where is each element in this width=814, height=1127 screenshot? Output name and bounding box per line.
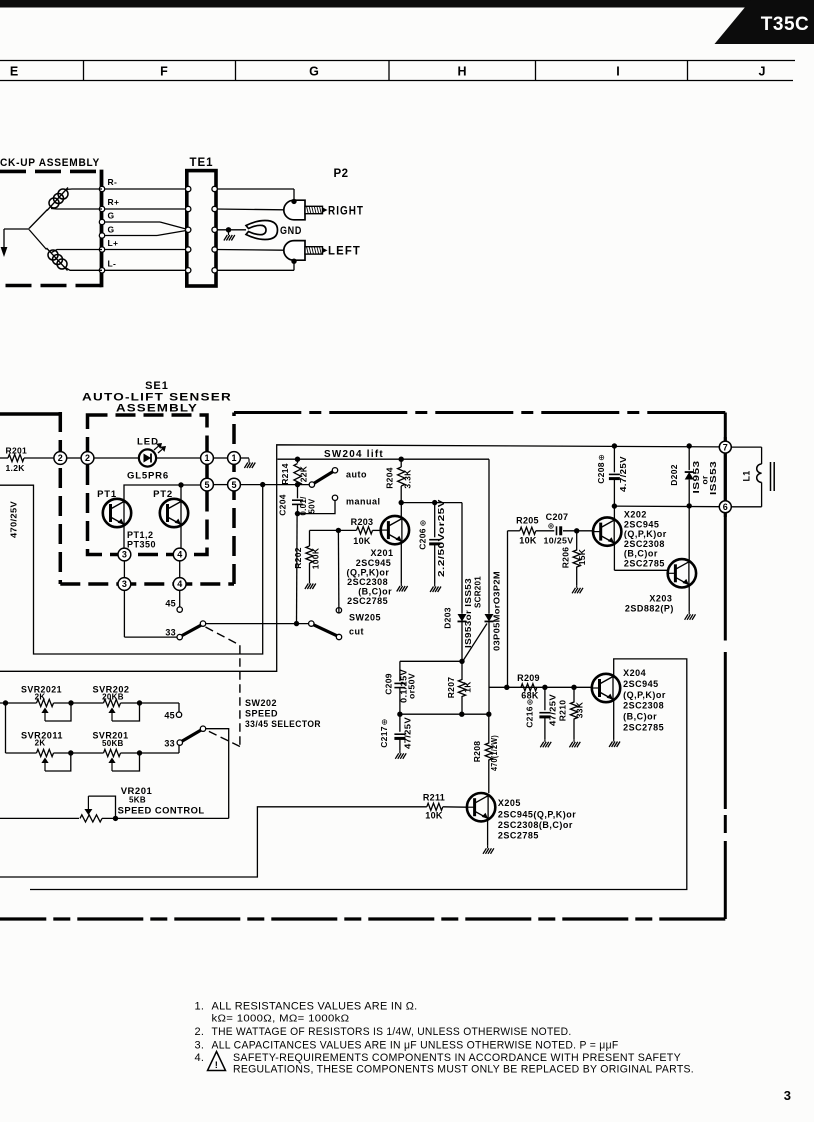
svg-text:J: J	[759, 65, 766, 79]
svg-text:R214: R214	[280, 463, 290, 485]
svg-text:15K: 15K	[577, 548, 587, 565]
svg-text:2SC2785: 2SC2785	[624, 559, 665, 569]
svg-text:ISS53: ISS53	[708, 461, 718, 495]
svg-text:2: 2	[85, 453, 90, 463]
svg-text:4.7/25V: 4.7/25V	[619, 456, 628, 492]
svg-text:1.2K: 1.2K	[6, 463, 26, 473]
svg-text:1.: 1.	[195, 1001, 205, 1013]
svg-text:5KB: 5KB	[129, 796, 146, 805]
svg-text:SW204 lift: SW204 lift	[324, 449, 384, 460]
svg-text:2K: 2K	[35, 739, 46, 748]
svg-text:X203: X203	[649, 594, 672, 604]
svg-text:ALL CAPACITANCES VALUES ARE IN: ALL CAPACITANCES VALUES ARE IN μF UNLESS…	[212, 1040, 619, 1052]
svg-text:TE1: TE1	[189, 157, 213, 169]
svg-text:2SC945: 2SC945	[623, 679, 659, 689]
svg-text:C216: C216	[525, 706, 535, 728]
svg-text:auto: auto	[346, 470, 367, 480]
svg-text:cut: cut	[349, 627, 364, 637]
svg-text:4: 4	[177, 579, 182, 589]
svg-text:G: G	[108, 211, 115, 221]
svg-text:PT2: PT2	[153, 489, 173, 500]
svg-text:5: 5	[231, 480, 236, 490]
svg-text:R-: R-	[108, 177, 118, 187]
svg-text:4.: 4.	[195, 1052, 205, 1064]
svg-text:F: F	[160, 65, 168, 79]
svg-text:kΩ= 1000Ω, MΩ= 1000kΩ: kΩ= 1000Ω, MΩ= 1000kΩ	[212, 1014, 350, 1025]
svg-text:(B,C)or: (B,C)or	[624, 549, 658, 559]
svg-text:CK-UP ASSEMBLY: CK-UP ASSEMBLY	[0, 157, 100, 169]
svg-text:2SC945(Q,P,K)or: 2SC945(Q,P,K)or	[498, 810, 576, 820]
svg-text:R208: R208	[472, 741, 482, 763]
svg-text:47/25V: 47/25V	[549, 694, 558, 726]
svg-text:⊕: ⊕	[548, 522, 555, 531]
svg-text:(B,C)or: (B,C)or	[358, 587, 392, 597]
svg-text:RIGHT: RIGHT	[328, 205, 364, 217]
svg-text:I: I	[616, 65, 619, 79]
svg-text:L1: L1	[742, 470, 752, 481]
svg-text:R203: R203	[351, 517, 374, 527]
svg-text:50V: 50V	[308, 498, 317, 513]
svg-text:REGULATIONS, THESE COMPONENTS: REGULATIONS, THESE COMPONENTS MUST ONLY …	[233, 1064, 694, 1076]
svg-text:45: 45	[165, 599, 176, 609]
svg-text:1: 1	[231, 453, 236, 463]
svg-text:D202: D202	[669, 464, 679, 486]
svg-text:3: 3	[122, 550, 127, 560]
svg-text:3: 3	[784, 1088, 791, 1103]
svg-text:GL5PR6: GL5PR6	[127, 471, 169, 482]
svg-text:PT1,2: PT1,2	[127, 530, 154, 540]
svg-text:C207: C207	[546, 512, 569, 522]
svg-text:G: G	[108, 225, 115, 235]
svg-text:33: 33	[165, 628, 176, 638]
svg-text:C208: C208	[596, 462, 606, 484]
svg-text:X204: X204	[623, 668, 646, 678]
svg-text:10K: 10K	[425, 811, 443, 821]
svg-text:⊕: ⊕	[380, 719, 389, 726]
svg-text:22K: 22K	[299, 465, 309, 482]
svg-text:SW202: SW202	[245, 698, 277, 708]
svg-text:SCR201: SCR201	[473, 576, 483, 608]
svg-text:SE1: SE1	[145, 380, 169, 392]
svg-text:3: 3	[122, 579, 127, 589]
svg-text:X201: X201	[371, 548, 394, 558]
svg-text:2SC2308(B,C)or: 2SC2308(B,C)or	[498, 820, 573, 830]
svg-text:03P05MorO3P2M: 03P05MorO3P2M	[493, 571, 502, 651]
svg-text:3.3K: 3.3K	[403, 469, 413, 489]
svg-text:⊕: ⊕	[597, 454, 606, 461]
svg-text:C206: C206	[418, 528, 428, 550]
svg-text:2.2/50Vor25V: 2.2/50Vor25V	[437, 498, 446, 577]
svg-text:7: 7	[723, 442, 728, 452]
svg-text:1K: 1K	[463, 681, 473, 693]
svg-text:33: 33	[164, 739, 175, 749]
svg-text:100K: 100K	[311, 547, 321, 569]
svg-text:6: 6	[723, 502, 728, 512]
svg-text:E: E	[10, 65, 18, 79]
svg-text:1: 1	[204, 453, 209, 463]
svg-text:H: H	[457, 65, 466, 79]
svg-text:SPEED: SPEED	[245, 709, 278, 719]
svg-text:PT1: PT1	[97, 489, 117, 500]
svg-text:(B,C)or: (B,C)or	[623, 712, 657, 722]
svg-text:10K: 10K	[353, 536, 371, 546]
svg-text:50KB: 50KB	[102, 739, 124, 748]
svg-text:C209: C209	[384, 673, 394, 695]
svg-text:D203: D203	[443, 607, 453, 629]
svg-text:C204: C204	[278, 494, 288, 516]
svg-text:SAFETY-REQUIREMENTS COMPONENTS: SAFETY-REQUIREMENTS COMPONENTS IN ACCORD…	[233, 1052, 681, 1064]
svg-text:G: G	[309, 65, 319, 79]
svg-text:T35C: T35C	[761, 14, 809, 35]
svg-text:2SC2308: 2SC2308	[624, 539, 665, 549]
svg-text:THE WATTAGE OF RESISTORS IS 1/: THE WATTAGE OF RESISTORS IS 1/4W, UNLESS…	[212, 1026, 572, 1038]
svg-text:GND: GND	[280, 225, 302, 237]
svg-text:2: 2	[58, 453, 63, 463]
svg-text:R202: R202	[293, 547, 303, 569]
svg-text:33/45 SELECTOR: 33/45 SELECTOR	[245, 719, 321, 730]
svg-text:2SC2308: 2SC2308	[347, 577, 388, 587]
svg-text:R207: R207	[446, 677, 456, 699]
svg-text:33K: 33K	[575, 701, 585, 718]
svg-text:or50V: or50V	[408, 672, 417, 699]
svg-text:2SC2785: 2SC2785	[347, 596, 388, 606]
svg-text:47/25V: 47/25V	[404, 717, 413, 749]
svg-text:SW205: SW205	[349, 613, 381, 623]
svg-text:R+: R+	[108, 197, 120, 207]
svg-text:2SC945: 2SC945	[356, 558, 392, 568]
svg-text:470/25V: 470/25V	[9, 501, 19, 538]
svg-text:2SC2785: 2SC2785	[498, 831, 539, 841]
svg-text:3.: 3.	[195, 1040, 205, 1052]
svg-text:R201: R201	[6, 446, 28, 456]
svg-text:(Q,P,K)or: (Q,P,K)or	[624, 529, 667, 539]
svg-text:ALL RESISTANCES VALUES ARE IN: ALL RESISTANCES VALUES ARE IN Ω.	[212, 1001, 418, 1013]
svg-text:SPEED CONTROL: SPEED CONTROL	[118, 806, 205, 817]
svg-text:PT350: PT350	[127, 540, 156, 550]
svg-text:2SD882(P): 2SD882(P)	[625, 604, 674, 614]
svg-text:L+: L+	[108, 238, 119, 248]
svg-text:20KB: 20KB	[102, 693, 124, 702]
svg-text:10/25V: 10/25V	[544, 537, 574, 546]
svg-text:⊕: ⊕	[526, 699, 535, 706]
svg-text:2.: 2.	[195, 1026, 205, 1038]
svg-text:IS953or ISS53: IS953or ISS53	[464, 578, 473, 648]
svg-text:C217: C217	[379, 726, 389, 748]
svg-text:R209: R209	[517, 673, 540, 683]
svg-text:L-: L-	[108, 259, 117, 269]
svg-text:2SC945: 2SC945	[624, 519, 660, 529]
svg-text:4: 4	[177, 550, 182, 560]
svg-text:5: 5	[204, 480, 209, 490]
svg-text:(Q,P,K)or: (Q,P,K)or	[347, 568, 390, 578]
svg-text:45: 45	[164, 711, 175, 721]
svg-text:R211: R211	[423, 793, 445, 803]
svg-text:2SC2308: 2SC2308	[623, 701, 664, 711]
svg-text:R205: R205	[516, 516, 539, 526]
svg-text:R210: R210	[558, 700, 568, 722]
svg-text:P2: P2	[333, 168, 348, 180]
svg-text:470(1/2W): 470(1/2W)	[490, 735, 499, 771]
svg-text:ASSEMBLY: ASSEMBLY	[116, 403, 198, 415]
svg-text:LEFT: LEFT	[328, 246, 361, 258]
svg-text:!: !	[215, 1060, 218, 1071]
svg-text:10K: 10K	[519, 536, 537, 546]
svg-text:X202: X202	[624, 510, 647, 520]
svg-text:R204: R204	[385, 467, 395, 489]
svg-text:2SC2785: 2SC2785	[623, 723, 664, 733]
svg-text:LED: LED	[137, 437, 159, 448]
svg-text:X205: X205	[498, 798, 521, 808]
svg-text:(Q,P,K)or: (Q,P,K)or	[623, 690, 666, 700]
svg-text:R206: R206	[561, 547, 571, 569]
svg-text:⊕: ⊕	[419, 520, 428, 527]
svg-text:2K: 2K	[35, 693, 46, 702]
svg-text:manual: manual	[346, 497, 381, 507]
